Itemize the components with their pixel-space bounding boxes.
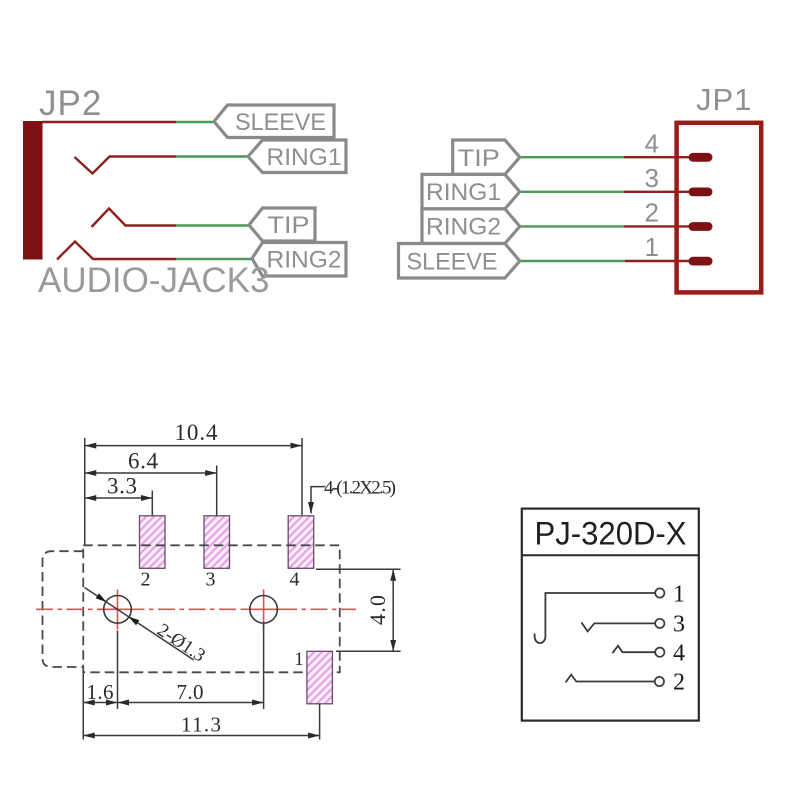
- dimension 1.6: [83, 680, 117, 704]
- dimension 11.3: [83, 713, 319, 737]
- svg-text:4.0: 4.0: [365, 595, 390, 625]
- leader line 2-dia-1.3: [85, 588, 209, 667]
- svg-text:1: 1: [645, 232, 659, 262]
- ring2 contact symbol (pin 4): [612, 646, 664, 657]
- extension line pad3 center: [216, 466, 218, 516]
- sleeve contact symbol (pin 2): [566, 675, 664, 687]
- svg-text:3.3: 3.3: [107, 474, 137, 499]
- switch contact TIP (JP2) and wire: [92, 209, 251, 228]
- svg-text:10.4: 10.4: [175, 420, 219, 445]
- red crosshair hole 1: [99, 590, 136, 630]
- table box: [522, 509, 699, 721]
- svg-text:1: 1: [673, 582, 685, 608]
- dimension 3.3 line: [85, 497, 153, 499]
- svg-text:4: 4: [290, 569, 300, 591]
- dimension 7.0: [118, 680, 264, 704]
- svg-text:SLEEVE: SLEEVE: [407, 249, 498, 276]
- hole circle 1: [104, 596, 132, 624]
- svg-text:3: 3: [645, 163, 659, 193]
- svg-text:SLEEVE: SLEEVE: [235, 109, 326, 136]
- flag label SLEEVE (JP1): [399, 244, 520, 279]
- flag label SLEEVE (JP2): [214, 105, 334, 138]
- flag label RING2 (JP1): [422, 209, 520, 244]
- pin 1 pad (JP1): [689, 257, 713, 266]
- dimension 4.0 (vertical): [316, 569, 401, 651]
- hole circle 2: [250, 596, 278, 624]
- svg-text:JP2: JP2: [39, 84, 102, 123]
- flag label RING1 (JP2): [248, 140, 346, 173]
- ring1 contact symbol (pin 3): [581, 619, 664, 632]
- flag label RING1 (JP1): [422, 174, 520, 209]
- switch contact RING1 (JP2) and wire: [75, 157, 251, 174]
- extension line left: [84, 438, 86, 545]
- wire TIP net (JP1 side): [520, 156, 690, 158]
- svg-text:RING1: RING1: [267, 144, 342, 171]
- svg-text:1: 1: [294, 649, 304, 670]
- switch contact RING2 (JP2) and wire: [57, 242, 253, 260]
- red crosshair hole 2: [245, 590, 282, 630]
- svg-text:2: 2: [141, 569, 151, 591]
- svg-text:1.6: 1.6: [87, 680, 114, 704]
- dimension 6.4 line: [85, 472, 217, 474]
- svg-text:RING2: RING2: [426, 214, 501, 241]
- svg-text:RING1: RING1: [426, 179, 501, 206]
- extension line pad4: [301, 438, 303, 515]
- pad 3 (hatched): [204, 516, 230, 591]
- svg-text:2: 2: [645, 198, 659, 228]
- wire SLEEVE net (JP1 side): [520, 260, 690, 262]
- pad 2 (hatched): [140, 516, 166, 591]
- svg-text:RING2: RING2: [267, 247, 342, 274]
- label 4-(1.2X2.5) with leader: [311, 478, 396, 514]
- connector JP2 body bar: [23, 121, 43, 260]
- svg-text:4: 4: [645, 129, 659, 159]
- pin 4 pad (JP1): [689, 153, 713, 162]
- flag label TIP (JP1): [453, 140, 520, 174]
- extension lines bottom: [83, 624, 319, 740]
- wire SLEEVE net (JP2 side): [42, 121, 216, 123]
- wire RING1 net (JP1 side): [520, 191, 690, 193]
- flag label RING2 (JP2): [252, 243, 346, 277]
- wire RING2 net (JP1 side): [520, 225, 690, 227]
- svg-text:7.0: 7.0: [177, 680, 204, 704]
- extension line pad2 center: [151, 491, 153, 516]
- component body outline (dashed): [83, 545, 340, 672]
- pin 2 pad (JP1): [689, 222, 713, 231]
- svg-text:11.3: 11.3: [181, 713, 221, 737]
- svg-text:4-(1.2X2.5): 4-(1.2X2.5): [324, 478, 396, 499]
- svg-text:TIP: TIP: [458, 145, 500, 172]
- svg-text:4: 4: [673, 641, 685, 667]
- svg-text:2: 2: [673, 670, 685, 696]
- pin 3 pad (JP1): [689, 188, 713, 197]
- tip contact symbol (pin 1): [535, 588, 665, 643]
- svg-text:TIP: TIP: [268, 212, 310, 239]
- table divider: [522, 554, 699, 556]
- svg-text:JP1: JP1: [696, 82, 752, 117]
- svg-text:3: 3: [206, 569, 216, 591]
- svg-text:6.4: 6.4: [128, 449, 159, 474]
- svg-text:AUDIO-JACK3: AUDIO-JACK3: [38, 261, 269, 300]
- svg-text:3: 3: [673, 612, 685, 638]
- jack barrel outline (dashed): [43, 551, 84, 667]
- pad 1 (hatched): [294, 649, 332, 704]
- svg-text:PJ-320D-X: PJ-320D-X: [535, 516, 687, 552]
- red center line: [36, 608, 356, 610]
- connector JP1 body box: [677, 123, 762, 293]
- dimension 10.4 line: [85, 445, 302, 447]
- pad 4 (hatched): [288, 516, 314, 591]
- flag label TIP (JP2): [249, 208, 315, 241]
